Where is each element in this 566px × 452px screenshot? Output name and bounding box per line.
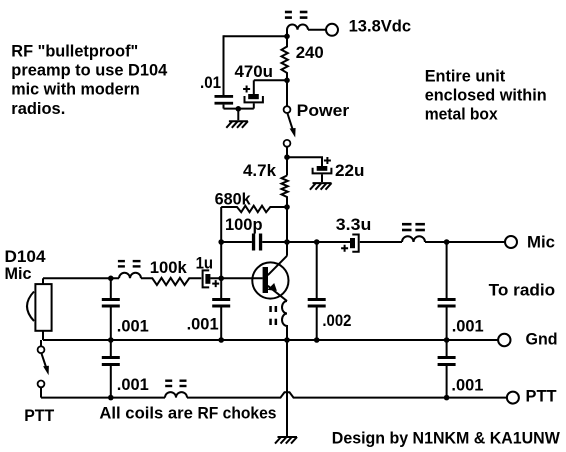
svg-text:.001: .001 (117, 375, 149, 394)
node 22u junction (284, 154, 290, 160)
svg-text:metal box: metal box (425, 105, 498, 124)
ground G3 (275, 437, 297, 444)
wire (308, 29, 326, 31)
capacitor 100p (252, 234, 262, 251)
svg-text:PTT: PTT (24, 406, 55, 425)
svg-text:470u: 470u (235, 62, 274, 81)
wire (446, 242, 448, 298)
node 680k right junction (284, 204, 290, 210)
transistor Q1 (252, 256, 288, 301)
svg-text:Mic: Mic (5, 264, 32, 283)
svg-text:4.7k: 4.7k (243, 161, 277, 180)
resistor 4.7k (282, 176, 288, 208)
svg-text:680k: 680k (215, 190, 252, 209)
wire ground tap (237, 109, 239, 120)
svg-text:.001: .001 (187, 314, 219, 333)
svg-text:RF "bulletproof": RF "bulletproof" (11, 42, 138, 61)
wire to 3.3u (317, 241, 351, 243)
switch PTT arm (42, 354, 47, 369)
wire rail1 Gnd (43, 339, 498, 341)
inductor input choke (119, 273, 141, 279)
emitter choke vertical (282, 301, 287, 340)
svg-text:.001: .001 (452, 316, 484, 335)
svg-text:radios.: radios. (11, 99, 65, 118)
wire emitter ground drop (286, 340, 288, 436)
wire bottom horizontal to 470u (224, 108, 254, 110)
wire PTT contact to rail2 (40, 387, 42, 397)
wire .01 bottom (223, 105, 225, 109)
svg-text:22u: 22u (335, 161, 365, 180)
svg-text:100k: 100k (150, 258, 188, 277)
switch PTT contact top (38, 346, 45, 353)
capacitor 3.3u (341, 235, 359, 252)
wire (110, 366, 112, 398)
svg-text:3.3u: 3.3u (336, 215, 372, 234)
node rail1 left cap (108, 337, 114, 343)
wire left drop to .01 (223, 35, 225, 95)
wire (446, 308, 448, 341)
terminal Mic (505, 236, 517, 248)
svg-text:RF chokes: RF chokes (198, 404, 277, 423)
capacitor .001 mid top (212, 298, 230, 308)
wire (110, 278, 112, 298)
svg-text:Design by N1NKM & KA1UNW: Design by N1NKM & KA1UNW (332, 429, 561, 448)
wire (110, 340, 112, 356)
wire (220, 308, 222, 341)
ground G2 (310, 183, 332, 190)
svg-text:.01: .01 (200, 73, 221, 92)
wire base (210, 277, 262, 279)
wire rail1 to PTT contact (40, 340, 42, 346)
svg-text:.001: .001 (451, 376, 483, 395)
svg-text:Mic: Mic (527, 233, 555, 252)
svg-text:Entire unit: Entire unit (425, 66, 506, 85)
wire top horizontal (224, 35, 288, 37)
resistor 680k (221, 206, 287, 213)
inductor output choke (402, 236, 425, 242)
wire down to power switch (286, 80, 288, 106)
svg-text:To radio: To radio (489, 280, 556, 299)
wire choke to Mic terminal (425, 241, 505, 243)
capacitor .01 (215, 95, 234, 105)
svg-text:.002: .002 (322, 311, 351, 330)
wire (316, 242, 318, 298)
wire 3.3u to choke (360, 241, 402, 243)
node .002 junction (314, 239, 320, 245)
ground G1 (226, 121, 248, 128)
wire left vertical 680k to base (220, 207, 222, 278)
microphone D104 (27, 278, 52, 340)
core marks output choke (402, 223, 425, 231)
wire mic to choke (43, 277, 119, 279)
svg-text:Gnd: Gnd (526, 329, 558, 348)
core marks rail2 choke (165, 380, 186, 388)
switch PTT contact bottom (38, 381, 45, 388)
node base junction (218, 276, 224, 282)
node ground tap (236, 106, 242, 112)
core marks L1 (285, 11, 308, 19)
node rail2 right cap (444, 395, 450, 401)
wire collector to .002 (287, 241, 317, 243)
wire 470u branch (254, 79, 287, 81)
wire (110, 308, 112, 341)
svg-text:PTT: PTT (526, 387, 558, 406)
svg-text:13.8Vdc: 13.8Vdc (349, 17, 412, 36)
svg-text:100p: 100p (225, 215, 263, 234)
capacitor 22u (313, 157, 332, 182)
capacitor .001 right top (438, 298, 456, 308)
svg-text:preamp to use D104: preamp to use D104 (11, 61, 168, 80)
terminal Gnd (498, 334, 510, 346)
node 470u junction (284, 78, 290, 84)
node rail1 right cap (444, 337, 450, 343)
svg-text:240: 240 (296, 43, 324, 62)
svg-text:mic with modern: mic with modern (11, 80, 140, 99)
terminal PTT (507, 392, 519, 404)
wire main vertical collector (286, 207, 288, 256)
wire (446, 366, 448, 398)
node top junction (284, 34, 290, 40)
svg-text:enclosed within: enclosed within (425, 85, 547, 104)
node collector junction (284, 239, 290, 245)
terminal 13.8Vdc (326, 24, 338, 36)
svg-text:1u: 1u (196, 253, 214, 272)
wire 22u branch (287, 157, 322, 166)
wire rail2 PTT with hop (41, 392, 507, 397)
switch Power contact bottom (284, 140, 291, 147)
capacitor 1u (203, 270, 220, 287)
switch Power contact top (284, 106, 291, 113)
resistor 100k (141, 278, 201, 285)
wire below switch (286, 147, 288, 176)
inductor L1 top choke (287, 25, 308, 37)
node rail1 emitter (284, 337, 290, 343)
node rail2 left cap (108, 395, 114, 401)
wire (316, 308, 318, 341)
wire 100p right (262, 241, 287, 243)
inductor rail2 choke (165, 392, 187, 398)
capacitor 470u (243, 80, 263, 108)
core marks emitter choke (269, 306, 277, 325)
node left cap junction (108, 276, 114, 282)
node rail1 .002 (314, 337, 320, 343)
svg-text:All coils are: All coils are (99, 404, 192, 423)
node Mic column junction (444, 239, 450, 245)
core marks input choke (118, 260, 141, 268)
svg-text:D104: D104 (5, 247, 47, 266)
svg-text:.001: .001 (117, 316, 149, 335)
wire (220, 278, 222, 298)
capacitor .001 left bottom (102, 356, 120, 366)
resistor 240 (282, 37, 288, 80)
switch Power arm (288, 114, 294, 131)
node 100p left (218, 239, 224, 245)
svg-text:Power: Power (297, 101, 350, 120)
capacitor .001 right bottom (438, 356, 456, 366)
capacitor .002 (308, 298, 326, 308)
capacitor .001 left top (102, 298, 120, 308)
wire 100p left (221, 241, 252, 243)
node rail1 mid cap (218, 337, 224, 343)
wire (446, 340, 448, 356)
